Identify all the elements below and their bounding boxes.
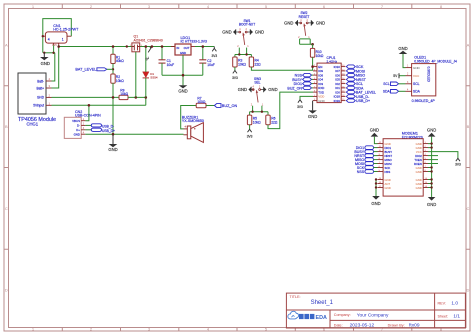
pin 1 modem GND right top: [416, 142, 428, 146]
switch SW3 contacts: [252, 86, 261, 91]
wire R2 bottom to gnd: [112, 83, 114, 134]
ground right of SW1: [247, 29, 264, 35]
pin stub buzzer top: [184, 128, 188, 130]
wire R10 to EN node: [312, 57, 314, 66]
node modem left gnd 19: [375, 178, 377, 180]
node modem right gnd 8: [430, 170, 432, 172]
svg-text:IC HT7333-1.3V3: IC HT7333-1.3V3: [181, 40, 207, 44]
svg-text:GND: GND: [416, 186, 422, 190]
net label SCK modem: [357, 166, 378, 170]
frame row labels: [5, 42, 470, 292]
wire LDO output rail: [195, 46, 214, 48]
frame column ticks bottom: [62, 328, 412, 332]
svg-text:OUT: OUT: [184, 46, 190, 50]
pin 6 modem SCK: [378, 166, 391, 170]
ground main bottom: [108, 134, 117, 152]
net label BUSY west: [292, 78, 313, 82]
svg-text:D: D: [5, 288, 8, 293]
node modem right gnd 16: [430, 186, 432, 188]
ground below modem right: [427, 197, 436, 207]
pin 2 modem GND right: [416, 146, 428, 150]
resistor R1: [111, 54, 124, 63]
pin 9 modem NRST: [378, 154, 393, 158]
ground right of SW3: [261, 87, 278, 93]
regulator LDO1 body: [175, 44, 191, 55]
wire battery plus vertical: [52, 47, 59, 89]
diode D1: [143, 72, 158, 80]
svg-text:Batt-: Batt-: [37, 79, 44, 83]
wire R9 right: [128, 96, 146, 98]
svg-text:B: B: [5, 124, 8, 129]
node gate junction: [135, 96, 138, 99]
pin 4 GND: [74, 132, 86, 136]
pin 3 OLED SCL: [406, 82, 420, 86]
pin IO8: [313, 73, 323, 77]
wire buzzer top to R7: [181, 106, 197, 129]
svg-text:100Ω: 100Ω: [197, 100, 206, 104]
pin IO6: [335, 73, 345, 77]
node gnd link right: [52, 52, 54, 54]
resistor R6: [266, 115, 278, 125]
pin 4 Batt-: [37, 77, 51, 83]
svg-text:10kΩ: 10kΩ: [116, 79, 124, 83]
pin 11 modem DIO1: [378, 146, 392, 150]
pin 12 modem GND left top: [378, 142, 391, 146]
svg-text:GND: GND: [416, 170, 422, 174]
module TP4056 body: [18, 73, 46, 114]
svg-text:Drawn By:: Drawn By:: [388, 323, 405, 327]
wire TP4056 5v line: [52, 104, 146, 106]
wire modem TXEN stub: [428, 159, 438, 161]
node rail R1: [112, 45, 115, 48]
power flag 3V3 under R3: [232, 67, 238, 80]
power flag 5V at OLED VCC: [393, 73, 405, 78]
net label MISO modem: [355, 158, 377, 162]
wire Q1 gate down: [135, 52, 137, 98]
port SCL: [383, 82, 405, 86]
net label BUZ_ON west cpu: [287, 86, 313, 90]
svg-text:REV:: REV:: [438, 301, 446, 305]
pin 2 GND: [37, 93, 52, 99]
switch SW1 lever: [243, 33, 245, 45]
svg-text:C: C: [5, 206, 8, 211]
svg-text:USB_D+: USB_D+: [356, 99, 370, 103]
svg-text:USB_D-: USB_D-: [102, 124, 114, 128]
wire VDD to 3V3: [300, 96, 313, 100]
svg-text:BOOT-NXT: BOOT-NXT: [239, 23, 255, 27]
wire modem right gnd bus: [431, 137, 433, 197]
net label SDA east: [346, 86, 364, 90]
net label NRST modem: [354, 154, 377, 158]
svg-text:GND: GND: [318, 99, 324, 103]
pin IO19: [334, 99, 346, 103]
svg-text:3V3: 3V3: [297, 105, 303, 109]
wire R6 riser: [267, 112, 269, 115]
module CPU1 body: [317, 63, 341, 103]
pin 4 OLED SDA: [406, 89, 421, 93]
svg-text:10uF: 10uF: [207, 63, 215, 67]
wire D1 top: [145, 47, 147, 72]
wire gnd link under CN1: [44, 52, 55, 54]
svg-text:10kΩ: 10kΩ: [316, 54, 324, 58]
svg-text:3V3: 3V3: [232, 76, 238, 80]
module MODEM1 body: [383, 139, 423, 196]
resistor R2: [111, 74, 124, 83]
node modem right gnd 2: [430, 146, 432, 148]
svg-text:3V3: 3V3: [455, 162, 461, 166]
node diode junction: [145, 96, 148, 99]
svg-text:GND: GND: [370, 128, 379, 133]
node modem right gnd 14: [430, 178, 432, 180]
wire OLED gnd up: [403, 54, 406, 68]
node modem left ant 18: [375, 182, 377, 184]
svg-text:ftx09: ftx09: [409, 323, 420, 329]
node rail C1: [161, 45, 164, 48]
net label DIO1 west: [294, 82, 313, 86]
switch SW1 contacts: [239, 28, 248, 33]
pin IO9: [313, 69, 323, 73]
capacitor C1: [159, 47, 175, 76]
pin 3 modem VCC: [416, 150, 428, 154]
node EN junction: [311, 65, 314, 68]
wire R6 to CPU TXD: [268, 92, 313, 129]
svg-text:VCC: VCC: [413, 74, 420, 78]
ground above OLED: [398, 46, 407, 54]
svg-text:AO3401_C2989640: AO3401_C2989640: [134, 38, 163, 42]
wire CN1 pin b to rail: [58, 45, 60, 47]
svg-text:SDA: SDA: [383, 90, 391, 94]
pin stub LDO in: [171, 46, 175, 48]
power flag 3V3 at CPU VDD: [297, 100, 303, 109]
svg-text:YX-SMD9650: YX-SMD9650: [182, 119, 204, 123]
node modem right gnd 15: [430, 182, 432, 184]
switch SW2 contacts: [300, 19, 309, 24]
pin stub LDO out: [191, 46, 195, 48]
pin 5 modem TXEN: [414, 158, 428, 162]
pin 18 modem ANT: [378, 182, 391, 186]
frame column ticks top: [62, 4, 412, 9]
ground left of SW1: [222, 29, 239, 35]
svg-text:GND: GND: [222, 30, 231, 35]
pin EN: [313, 65, 322, 69]
node SW1 bridge right: [245, 53, 247, 55]
net label USB_D-: [91, 124, 114, 129]
svg-text:4: 4: [48, 37, 50, 41]
net label NRST east: [346, 78, 366, 82]
node LDO gnd: [182, 74, 185, 77]
pin TXD: [313, 90, 324, 94]
svg-text:0.96OLED: 0.96OLED: [427, 67, 431, 83]
wire battery minus vertical: [52, 53, 55, 81]
port SDA: [383, 90, 406, 94]
title logo cloud EasyEDA: [288, 311, 327, 321]
title block outline: [286, 293, 465, 328]
power flag 5V on rail: [145, 47, 152, 62]
wire modem RXEN stub: [428, 163, 438, 165]
wire SW3 split left: [252, 106, 254, 112]
pin 1 OLED GND: [406, 66, 421, 70]
svg-text:BUZ_ON: BUZ_ON: [222, 104, 238, 108]
svg-text:GND: GND: [41, 61, 50, 66]
wire R5 riser: [249, 112, 251, 115]
wire gnd stubs right bus: [428, 144, 432, 188]
pin 6 modem RXEN: [414, 162, 428, 166]
power flag 3V3 under R5: [247, 125, 253, 139]
svg-text:10kΩ: 10kΩ: [253, 120, 261, 124]
pin 4 CN1: [43, 36, 50, 41]
pin IO2: [335, 82, 345, 86]
wire VBUS riser to 5v line: [85, 105, 89, 120]
net label USB_D+ east: [346, 99, 370, 103]
ground under LDO: [178, 85, 187, 93]
ground above modem right: [427, 128, 436, 137]
svg-text:EDA: EDA: [316, 315, 327, 321]
node modem right gnd 7: [430, 166, 432, 168]
svg-text:1/1: 1/1: [453, 313, 460, 319]
svg-text:0.96OLED_4P: 0.96OLED_4P: [412, 99, 436, 103]
svg-text:2023-05-12: 2023-05-12: [350, 323, 375, 329]
power flag 3V3 at LDO output: [211, 47, 217, 59]
svg-text:GND: GND: [385, 186, 391, 190]
pin VDD: [313, 95, 324, 99]
svg-text:Company:: Company:: [334, 313, 351, 317]
module OLED1 body: [412, 64, 436, 96]
wire 5v line corner up: [145, 97, 147, 105]
node modem left gnd 17: [375, 186, 377, 188]
node rail 5V flag: [151, 45, 154, 48]
pin IO3: [313, 82, 323, 86]
svg-text:10uF: 10uF: [167, 63, 175, 67]
svg-text:GND: GND: [413, 66, 421, 70]
wire main battery rail: [59, 46, 175, 48]
node rail C2: [202, 45, 205, 48]
ground left of SW2: [284, 20, 301, 26]
svg-text:1: 1: [62, 37, 64, 41]
svg-text:GND: GND: [398, 46, 407, 51]
svg-text:NSS: NSS: [357, 170, 365, 174]
title block divider lines: [286, 293, 465, 328]
pin 7 modem MOSI: [378, 162, 392, 166]
node rail at CN1: [57, 45, 60, 48]
switch SW2 lever: [304, 24, 306, 36]
node SW1 bridge left: [238, 53, 240, 55]
wire D+ stub: [85, 129, 91, 131]
svg-text:GND: GND: [371, 201, 380, 206]
node modem right gnd 1: [430, 142, 432, 144]
svg-text:D: D: [467, 288, 470, 293]
svg-text:D-: D-: [77, 124, 80, 128]
connector CN1 body: [45, 32, 67, 43]
svg-text:GND: GND: [268, 87, 277, 92]
svg-text:BUZ_ON: BUZ_ON: [287, 86, 302, 90]
svg-text:Date:: Date:: [334, 323, 343, 327]
pin 2 OLED VCC: [406, 74, 421, 78]
pin IO0: [335, 90, 345, 94]
wire SW3 bottom bridge: [250, 111, 268, 113]
ground right of SW2: [308, 20, 325, 26]
svg-text:GND: GND: [427, 202, 436, 207]
wire gnd bottom run CN2 to buzzer: [85, 133, 183, 135]
net label SCK east: [346, 65, 364, 69]
pin 5 modem NSS: [378, 170, 391, 174]
node SW3 bridge left: [251, 111, 253, 113]
svg-text:10kΩ: 10kΩ: [120, 92, 128, 96]
svg-text:22Ω: 22Ω: [271, 120, 278, 124]
pin GND CPU: [313, 99, 325, 103]
pin 1 CN1: [62, 36, 72, 41]
svg-text:1.25: 1.25: [52, 44, 57, 47]
wire R7 to flag: [206, 105, 214, 107]
wire R4 to CPU EN: [251, 67, 313, 71]
ground below modem left: [371, 196, 380, 206]
connector CN2 body: [64, 117, 81, 138]
pin 3 D+: [76, 128, 85, 132]
pin 14 modem GND right low: [416, 178, 428, 182]
svg-text:C: C: [467, 206, 470, 211]
switch SW2 lever arrow: [303, 24, 306, 27]
svg-text:A: A: [5, 42, 8, 47]
pin 4 modem DIO2: [415, 154, 428, 158]
svg-text:A: A: [467, 42, 470, 47]
svg-text:5Vinput: 5Vinput: [33, 104, 44, 108]
switch SW3 lever arrow: [256, 91, 259, 94]
net label USB_D+: [91, 128, 115, 133]
wire modem left gnd bus: [375, 180, 377, 197]
wire D- stub: [85, 124, 91, 126]
svg-text:GND: GND: [74, 133, 80, 137]
pin 19 modem GND left low: [378, 178, 391, 182]
pin 3 Batt+: [36, 84, 51, 90]
wire LDO gnd down: [182, 55, 184, 85]
pin 7 modem GND right: [416, 166, 428, 170]
node gnd line cross: [112, 96, 115, 99]
wire CN1 pin a to gnd node: [53, 45, 55, 53]
svg-text:0.96OLED_4P_MODULE_J4: 0.96OLED_4P_MODULE_J4: [414, 59, 457, 63]
node SW2 to R10: [311, 43, 314, 46]
svg-text:IN: IN: [177, 46, 180, 50]
svg-text:TITLE:: TITLE:: [290, 295, 301, 299]
net label BUZ_ON west: [214, 104, 237, 109]
svg-text:USB_D+: USB_D+: [102, 129, 115, 133]
svg-text:SEL: SEL: [254, 81, 260, 85]
wire CPU gnd down: [312, 101, 314, 111]
svg-text:Your Company: Your Company: [357, 313, 389, 319]
capacitor C2: [199, 47, 215, 76]
frame row ticks right: [466, 86, 470, 250]
pin 8 modem MISO: [378, 158, 393, 162]
pin 2 D-: [77, 124, 85, 128]
pin IO7: [335, 69, 345, 73]
net label BUSY modem: [354, 150, 377, 154]
wire SW1 bottom bridge: [235, 54, 252, 56]
wire SW1 split right: [246, 48, 248, 55]
svg-text:3V3: 3V3: [247, 135, 253, 139]
node CN1 left pin: [42, 35, 44, 37]
svg-text:CHG1: CHG1: [27, 122, 39, 127]
net label BAT_LEVEL east: [346, 90, 376, 94]
ground above modem left: [370, 128, 379, 144]
svg-text:GND: GND: [255, 30, 264, 35]
pin IO18: [334, 95, 346, 99]
pin IO5: [335, 78, 345, 82]
pin 10 modem BUSY: [378, 150, 393, 154]
resistor R5: [247, 115, 261, 125]
pin IO1: [335, 86, 345, 90]
wire R1 riser: [112, 47, 114, 55]
pin 8 modem GND right: [416, 170, 428, 174]
node SW3 bridge right: [261, 111, 263, 113]
buzzer BUZZER1 symbol: [184, 123, 203, 143]
svg-text:GND: GND: [37, 96, 45, 100]
wire capacitor gnd bus: [162, 74, 203, 76]
svg-text:Sheet_1: Sheet_1: [311, 300, 334, 306]
pin 17 modem GND left bottom: [378, 186, 391, 190]
svg-text:10kΩ: 10kΩ: [238, 62, 246, 66]
net label MOSI modem: [355, 162, 377, 166]
wire modem DIO2 stub: [428, 155, 438, 157]
pin 1 5Vinput: [33, 101, 51, 107]
ground left of SW3: [238, 87, 255, 93]
svg-text:GND: GND: [316, 21, 325, 26]
resistor R10: [310, 48, 324, 58]
node VBUS tap: [88, 104, 91, 107]
svg-text:3V3: 3V3: [211, 54, 217, 58]
wire D1 bottom: [145, 78, 147, 98]
wire SW3 split right: [261, 106, 263, 112]
node gnd link left: [43, 52, 45, 54]
svg-text:SCL: SCL: [383, 82, 390, 86]
pin stub buzzer bottom: [184, 134, 188, 136]
pin IO4: [313, 78, 323, 82]
wire R3 riser: [234, 55, 236, 58]
wire divider middle: [112, 64, 114, 75]
node BAT_LEVEL tap: [112, 68, 114, 70]
svg-text:SDA: SDA: [413, 90, 421, 94]
wire TP4056 gnd line: [52, 96, 120, 98]
net label MISO east: [346, 73, 365, 77]
svg-text:Sheet:: Sheet:: [438, 314, 449, 318]
svg-text:D+: D+: [76, 128, 80, 132]
svg-text:GND: GND: [108, 147, 117, 152]
pin 1 VBUS: [72, 119, 85, 123]
wire CN1 loop: [43, 19, 72, 53]
svg-text:SCL: SCL: [413, 82, 420, 86]
svg-text:BAT_LEVEL: BAT_LEVEL: [75, 68, 96, 72]
wire SW2 loop: [300, 39, 313, 44]
resistor R3: [233, 57, 247, 67]
pin stub CN1 bottom b: [58, 43, 60, 45]
svg-text:Batt+: Batt+: [36, 86, 44, 90]
svg-text:40kΩ: 40kΩ: [116, 59, 124, 63]
svg-text:GND: GND: [238, 87, 247, 92]
ground under CPU: [308, 110, 317, 119]
frame row ticks left: [4, 86, 9, 250]
wire R4 riser: [250, 55, 252, 58]
pin 15 modem GND right low: [416, 182, 428, 186]
svg-text:GND: GND: [308, 114, 317, 119]
switch SW1 lever arrow: [242, 33, 245, 36]
svg-text:GND: GND: [180, 51, 186, 55]
resistor R9: [119, 89, 129, 100]
node gnd bottom: [112, 133, 115, 136]
transistor Q1: [130, 43, 143, 52]
net label BAT_LEVEL: [75, 68, 113, 72]
svg-text:NSS: NSS: [385, 170, 391, 174]
resistor R4: [249, 57, 261, 67]
switch SW3 lever: [256, 90, 258, 102]
net label MOSI east: [346, 69, 365, 73]
net label USB_D- east: [346, 95, 370, 99]
